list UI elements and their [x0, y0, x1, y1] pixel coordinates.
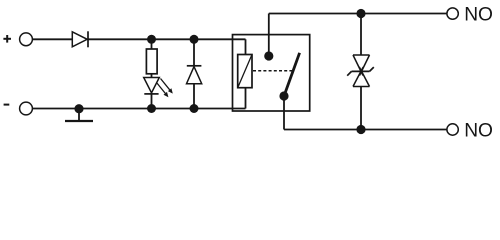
diode D1 — [72, 31, 88, 47]
wire bottom rail — [284, 129, 447, 131]
mechanical link (dashed) — [253, 70, 293, 72]
relay coil K1 — [238, 55, 252, 88]
wire TVS top lead — [360, 14, 362, 56]
wire top-left — [32, 38, 72, 40]
contact fixed terminal — [264, 51, 273, 60]
terminal NO top — [447, 8, 458, 19]
terminal - — [20, 102, 33, 115]
wire top rail — [269, 13, 447, 15]
wire bottom — [32, 108, 245, 110]
node top of D3 — [190, 35, 199, 44]
LED D2 — [144, 78, 173, 98]
wire coil bottom lead — [245, 88, 247, 109]
wire coil top lead — [245, 39, 247, 54]
terminal + — [20, 33, 33, 46]
terminal NO bottom — [447, 124, 458, 135]
contact blade — [284, 53, 300, 96]
ground — [65, 104, 93, 121]
wire R1 to LED — [151, 74, 153, 78]
wire D3 top stub — [193, 39, 195, 66]
TVS Z1 (bidirectional suppressor) — [347, 55, 374, 87]
svg-text:NO: NO — [464, 5, 493, 26]
svg-text:NO: NO — [464, 120, 493, 141]
wire TVS bottom lead — [360, 87, 362, 130]
resistor R1 — [146, 49, 157, 74]
wire D3 bottom stub — [193, 84, 195, 109]
node bottom of LED — [147, 104, 156, 113]
node bottom of D3 — [190, 104, 199, 113]
wire LED bottom stub — [151, 94, 153, 109]
node bottom rail / TVS — [356, 125, 365, 134]
wire R1 top stub — [151, 39, 153, 49]
wire top — [88, 38, 246, 40]
wire contact top — [268, 14, 270, 57]
node top rail / TVS — [356, 9, 365, 18]
contact moving terminal — [279, 91, 288, 100]
diode D3 (reverse protection) — [187, 66, 202, 84]
wire contact bottom — [283, 96, 285, 130]
label + — [3, 35, 11, 43]
node top of R1 — [147, 35, 156, 44]
label - — [4, 104, 10, 106]
relay K1 box — [233, 35, 310, 111]
